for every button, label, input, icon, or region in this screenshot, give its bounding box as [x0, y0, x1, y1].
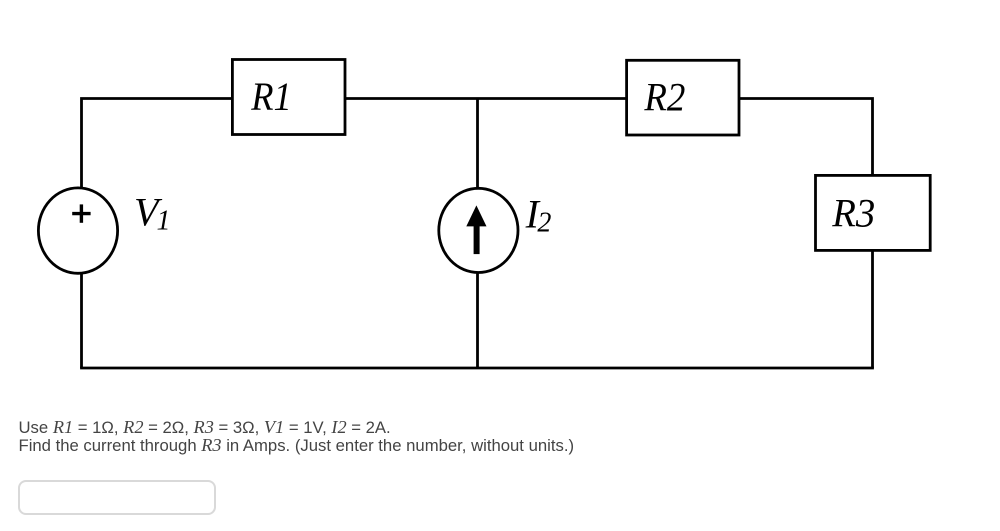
svg-text:R1: R1 — [250, 74, 291, 119]
svg-text:V1: V1 — [134, 190, 170, 237]
svg-text:R2: R2 — [643, 75, 685, 120]
svg-text:R3: R3 — [831, 191, 875, 236]
svg-text:I2: I2 — [525, 192, 552, 239]
